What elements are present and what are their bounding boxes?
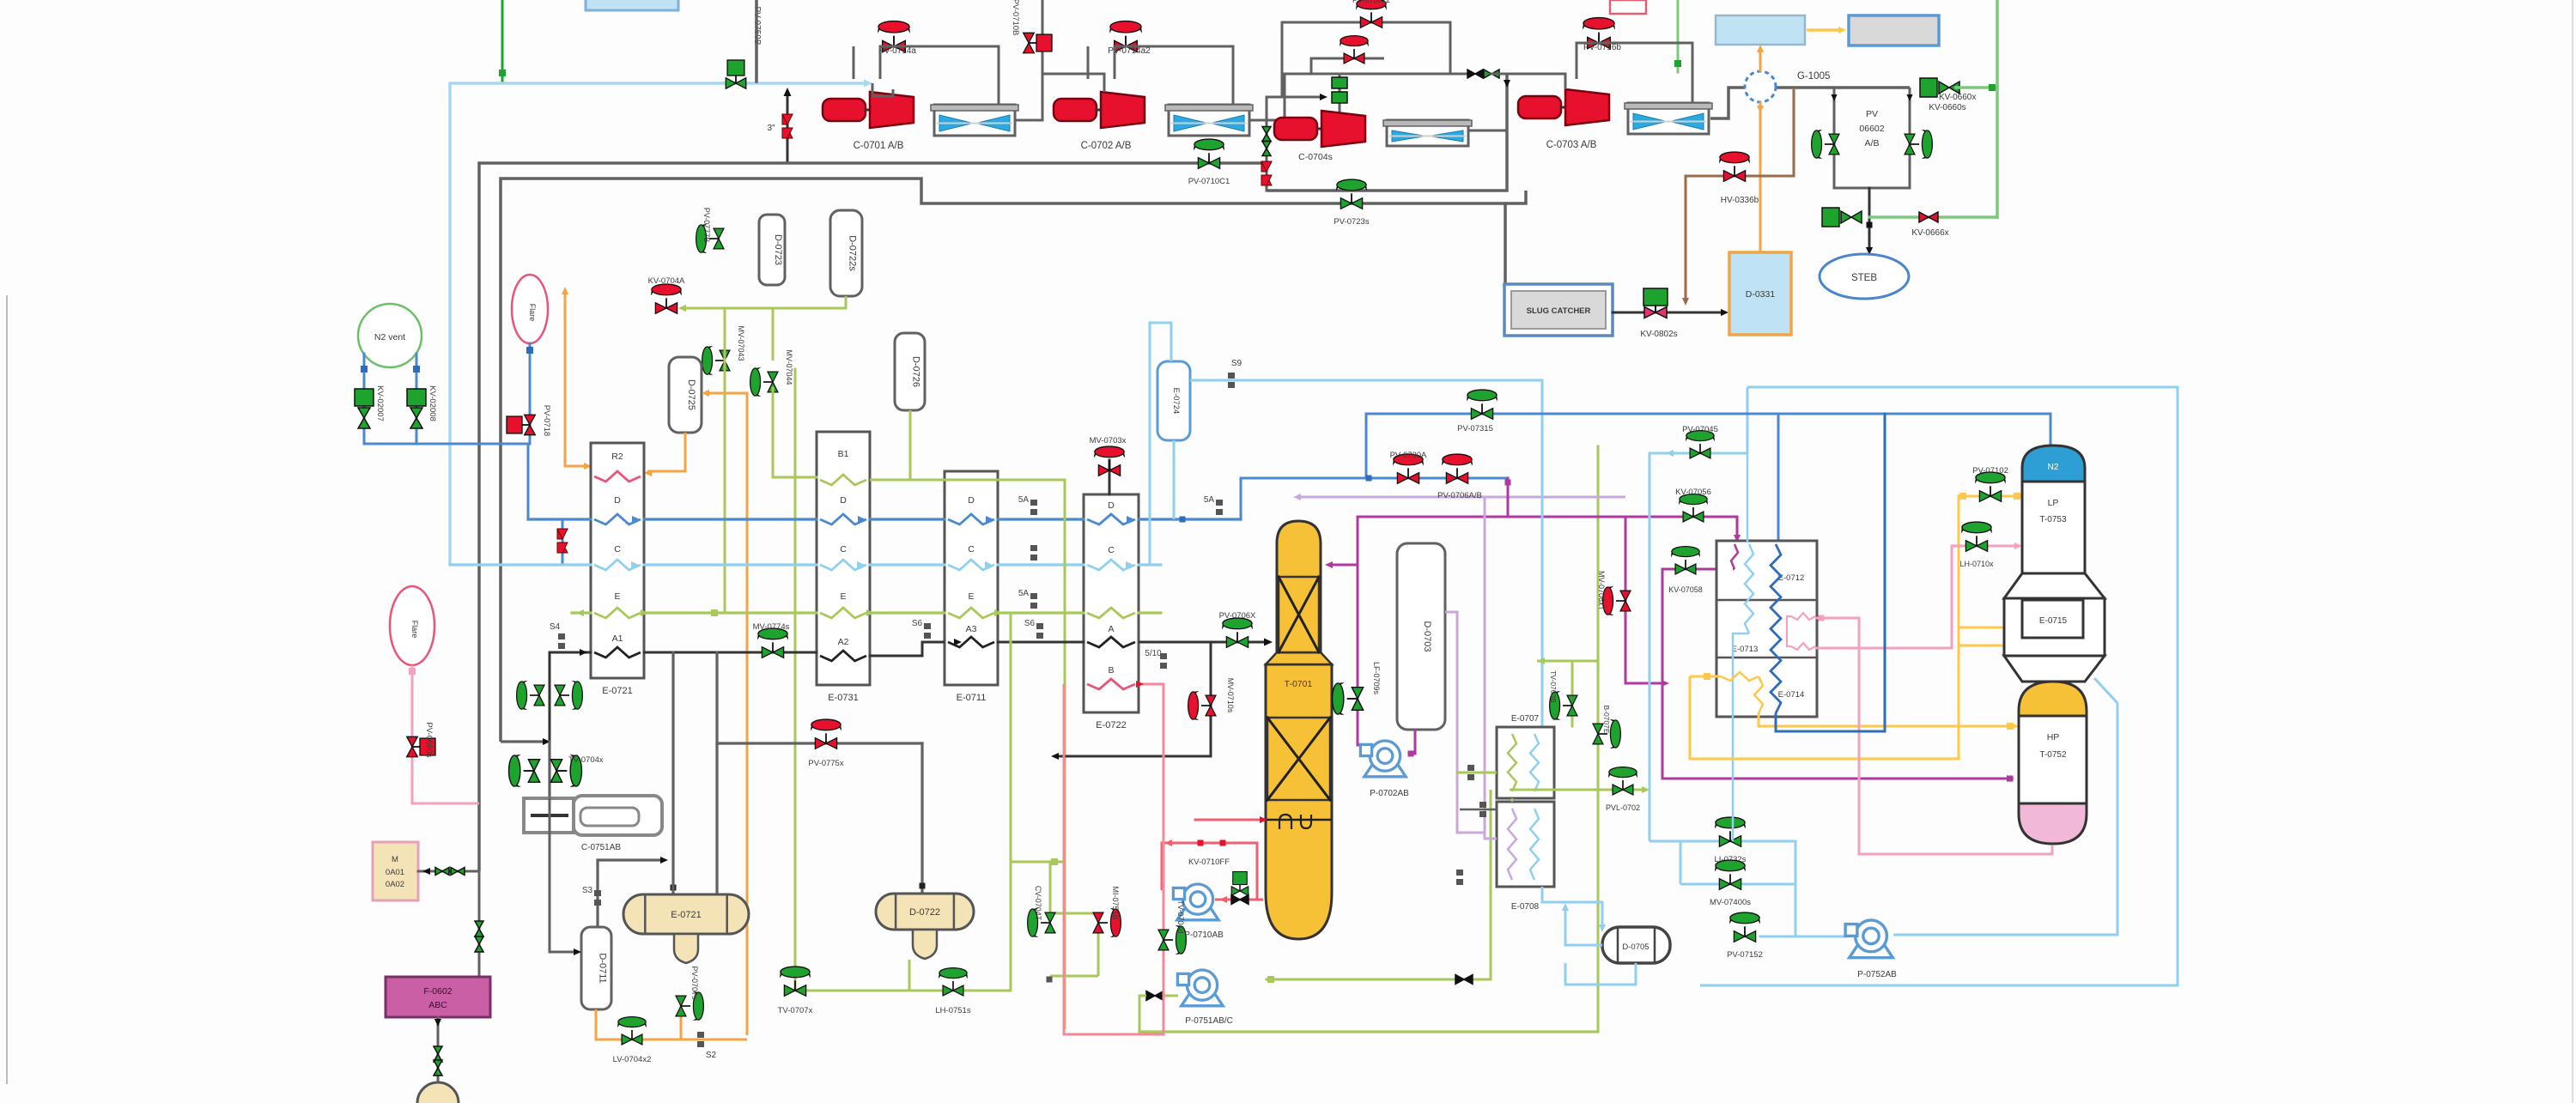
svg-text:KV-02007: KV-02007	[375, 385, 385, 421]
svg-text:PV-0718: PV-0718	[542, 405, 551, 436]
svg-text:G-1005: G-1005	[1797, 71, 1830, 82]
svg-text:PV-0660s: PV-0660s	[424, 722, 434, 757]
svg-text:PV-0714a: PV-0714a	[878, 46, 916, 56]
svg-text:C-0701 A/B: C-0701 A/B	[854, 141, 904, 151]
svg-text:D-0723: D-0723	[773, 234, 783, 265]
svg-text:PV-0777B: PV-0777B	[702, 208, 711, 243]
svg-text:CV-0704T: CV-0704T	[1034, 886, 1042, 921]
svg-text:TV-0707x: TV-0707x	[778, 1006, 813, 1015]
svg-text:KV-0666x: KV-0666x	[1911, 228, 1948, 238]
svg-text:KV-0802s: KV-0802s	[1640, 330, 1677, 339]
svg-text:C-0703 A/B: C-0703 A/B	[1546, 140, 1597, 150]
svg-text:P-0752AB: P-0752AB	[1857, 970, 1897, 979]
svg-text:P-0702AB: P-0702AB	[1370, 789, 1409, 798]
svg-text:D: D	[968, 495, 975, 506]
svg-text:KV-07056: KV-07056	[1675, 488, 1711, 497]
svg-text:E: E	[840, 591, 846, 602]
svg-text:C: C	[1108, 545, 1115, 555]
svg-text:A: A	[1108, 624, 1114, 634]
svg-text:S4: S4	[550, 622, 561, 632]
svg-text:N2 vent: N2 vent	[374, 332, 405, 342]
svg-text:TV-0703B: TV-0703B	[1549, 670, 1558, 703]
svg-text:0A01: 0A01	[386, 868, 404, 877]
svg-text:P-0710AB: P-0710AB	[1184, 930, 1224, 940]
svg-text:LP: LP	[2048, 498, 2059, 508]
svg-text:3″: 3″	[767, 124, 775, 133]
svg-text:D-0703: D-0703	[1422, 621, 1432, 651]
svg-text:TV-0704x: TV-0704x	[568, 755, 604, 765]
svg-text:E-0724: E-0724	[1171, 388, 1181, 415]
svg-text:PV-0710B: PV-0710B	[1011, 0, 1020, 35]
svg-text:D-0705: D-0705	[1622, 942, 1649, 952]
svg-text:R2: R2	[611, 452, 623, 462]
svg-text:T-0752: T-0752	[2039, 750, 2067, 760]
svg-text:MV-0706xT: MV-0706xT	[1597, 571, 1606, 611]
svg-text:S6: S6	[912, 619, 923, 628]
svg-text:D-0725: D-0725	[686, 379, 696, 410]
svg-text:5A: 5A	[1204, 495, 1215, 505]
svg-text:D-0331: D-0331	[1746, 289, 1776, 300]
svg-text:LF-0709s: LF-0709s	[1372, 662, 1381, 695]
svg-text:A3: A3	[966, 624, 977, 634]
svg-text:F-0602: F-0602	[423, 986, 452, 997]
svg-text:B1: B1	[838, 449, 849, 459]
svg-text:E-0714: E-0714	[1778, 690, 1805, 700]
svg-text:5/10: 5/10	[1145, 649, 1162, 658]
svg-text:E-0715: E-0715	[2039, 616, 2068, 626]
svg-text:E-0708: E-0708	[1511, 902, 1540, 912]
svg-text:PV-0723s: PV-0723s	[1334, 217, 1369, 227]
svg-text:PVL-0702: PVL-0702	[1606, 803, 1640, 812]
svg-text:C: C	[840, 544, 847, 555]
svg-text:MV-0710s: MV-0710s	[1226, 678, 1235, 713]
svg-text:HP: HP	[2047, 732, 2060, 742]
svg-text:PV-07315: PV-07315	[1457, 424, 1493, 433]
svg-text:T-0753: T-0753	[2039, 515, 2067, 524]
svg-text:D-0711: D-0711	[598, 953, 608, 983]
svg-text:PV-0716b: PV-0716b	[1583, 43, 1621, 52]
svg-text:06602: 06602	[1859, 124, 1884, 134]
svg-text:S6: S6	[1024, 619, 1036, 628]
svg-text:KV-0704A: KV-0704A	[648, 276, 685, 286]
svg-text:HV-0336b: HV-0336b	[1721, 196, 1759, 205]
svg-text:B: B	[1108, 665, 1114, 676]
svg-text:KV-02008: KV-02008	[428, 385, 437, 421]
svg-text:N2: N2	[2048, 463, 2059, 472]
svg-text:PV-07152: PV-07152	[1727, 950, 1763, 960]
svg-text:PV-07102: PV-07102	[1972, 466, 2008, 476]
svg-text:KV-0710FF: KV-0710FF	[1188, 858, 1230, 867]
svg-text:SLUG CATCHER: SLUG CATCHER	[1527, 306, 1591, 316]
svg-text:MV-07044: MV-07044	[785, 349, 793, 385]
svg-text:T-0701: T-0701	[1285, 679, 1313, 689]
svg-text:ABC: ABC	[428, 1000, 447, 1010]
svg-text:MI-0751B: MI-0751B	[1111, 886, 1120, 919]
svg-text:A2: A2	[838, 637, 849, 647]
svg-text:MV-07400s: MV-07400s	[1710, 898, 1751, 907]
svg-text:MV-07043: MV-07043	[737, 325, 745, 361]
svg-text:S3: S3	[582, 886, 593, 895]
svg-text:PV: PV	[1866, 109, 1878, 119]
svg-text:5A: 5A	[1018, 589, 1030, 598]
svg-text:S2: S2	[706, 1051, 717, 1060]
svg-text:B-0707E: B-0707E	[1602, 705, 1611, 733]
svg-text:E-0731: E-0731	[828, 693, 858, 703]
svg-text:LH-0751s: LH-0751s	[935, 1006, 970, 1015]
svg-text:STEB: STEB	[1851, 273, 1877, 283]
svg-text:A/B: A/B	[1865, 138, 1880, 148]
svg-text:Flare: Flare	[528, 304, 537, 322]
svg-text:E-0721: E-0721	[671, 910, 701, 920]
svg-text:A1: A1	[612, 633, 623, 644]
svg-text:0A02: 0A02	[386, 880, 404, 889]
svg-text:PV-0710C1: PV-0710C1	[1188, 177, 1230, 186]
svg-text:PV-0750x2: PV-0750x2	[1352, 0, 1390, 4]
svg-text:C: C	[968, 544, 975, 555]
svg-text:E: E	[968, 591, 974, 602]
svg-text:E-0711: E-0711	[957, 693, 987, 703]
svg-text:TV-0704d: TV-0704d	[1176, 900, 1185, 933]
svg-text:M: M	[392, 855, 398, 864]
svg-text:PV-07045: PV-07045	[1682, 425, 1718, 434]
svg-text:S9: S9	[1231, 359, 1242, 368]
svg-text:C-0702 A/B: C-0702 A/B	[1081, 141, 1132, 151]
svg-text:PV-0706X: PV-0706X	[1219, 611, 1256, 621]
svg-text:E-0713: E-0713	[1732, 645, 1759, 654]
svg-text:C: C	[614, 544, 621, 555]
svg-text:D-0722s: D-0722s	[848, 235, 858, 271]
svg-text:D-0722: D-0722	[909, 907, 940, 918]
svg-text:E-0721: E-0721	[602, 686, 632, 696]
svg-text:C-0751AB: C-0751AB	[581, 843, 621, 852]
svg-text:D-0726: D-0726	[911, 356, 921, 387]
svg-text:KV-0660x: KV-0660x	[1939, 93, 1976, 102]
svg-text:P-0751AB/C: P-0751AB/C	[1185, 1016, 1233, 1026]
svg-text:PV-0707s: PV-0707s	[690, 966, 699, 1000]
svg-text:PV-0775x: PV-0775x	[808, 759, 843, 768]
svg-text:LH-0710x: LH-0710x	[1959, 560, 1994, 568]
svg-text:C-0704s: C-0704s	[1298, 152, 1333, 162]
svg-text:D: D	[614, 495, 621, 506]
svg-text:MV-0774s: MV-0774s	[753, 622, 790, 632]
svg-text:PV-0706A/B: PV-0706A/B	[1437, 491, 1482, 500]
svg-text:KV-0660s: KV-0660s	[1929, 103, 1965, 112]
svg-text:5A: 5A	[1018, 495, 1030, 505]
svg-text:D: D	[840, 495, 847, 506]
svg-text:E-0712: E-0712	[1778, 573, 1805, 583]
svg-text:E-0722: E-0722	[1096, 720, 1126, 730]
svg-text:MV-0703x: MV-0703x	[1090, 436, 1127, 445]
svg-text:PV-0730A: PV-0730A	[1390, 451, 1427, 460]
svg-text:E-0707: E-0707	[1511, 714, 1540, 724]
svg-text:D: D	[1108, 500, 1115, 511]
svg-text:LV-0704x2: LV-0704x2	[613, 1055, 652, 1064]
svg-text:KV-07058: KV-07058	[1668, 585, 1703, 594]
svg-text:E: E	[614, 591, 620, 602]
svg-text:Flare: Flare	[410, 621, 419, 639]
